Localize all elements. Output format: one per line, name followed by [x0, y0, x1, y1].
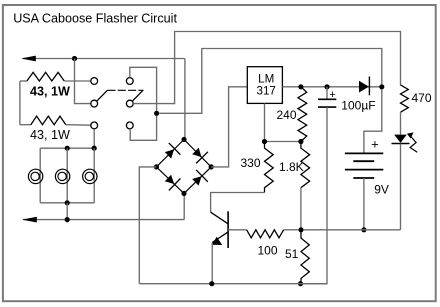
resistor R1 43 1W: [20, 72, 91, 81]
regulator U1 LM317 box: [247, 67, 282, 104]
resistor R2 43 1W: [20, 116, 91, 125]
svg-text:51: 51: [285, 247, 299, 261]
svg-text:43, 1W: 43, 1W: [30, 84, 70, 98]
wire cap positive lead: [326, 87, 328, 100]
node output/240 junction: [298, 84, 303, 89]
bridge diode D4 (left to bottom): [165, 175, 174, 184]
diode D1 cathode bar: [368, 77, 370, 96]
node adj/330 junction: [262, 139, 267, 144]
svg-text:100: 100: [258, 243, 278, 257]
wire LM317 output bus: [282, 86, 381, 88]
wire bridge edge TL: [156, 140, 184, 167]
svg-text:USA Caboose Flasher Circuit: USA Caboose Flasher Circuit: [13, 12, 177, 26]
node 51 bottom junction: [298, 281, 303, 286]
transistor Q1 emitter arrow: [212, 237, 222, 245]
svg-text:317: 317: [257, 84, 276, 97]
switch S1 contact 2A: [126, 78, 133, 85]
wire lamp feed 2: [66, 148, 68, 203]
node lamp bus top junction 1: [65, 146, 70, 151]
switch S1 contact 1B: [91, 100, 98, 107]
wire lamp bus top: [40, 147, 94, 149]
wire junction to switch pole 1: [75, 59, 91, 104]
battery BT1 plate long 1: [345, 152, 383, 154]
wire node to diode node (wire B): [159, 49, 382, 114]
LED D6 flash arrow: [407, 132, 417, 152]
node emitter/ground junction: [209, 281, 214, 286]
resistor 240: [298, 87, 307, 142]
wire switch 2B to 470 (wire A): [133, 32, 400, 104]
svg-text:240: 240: [276, 108, 296, 122]
switch S1 lever 1: [97, 90, 108, 101]
wire lamp bus bottom: [40, 202, 94, 204]
resistor 100: [247, 230, 284, 238]
wire LM317 adj: [264, 103, 266, 141]
svg-text:1.8K: 1.8K: [279, 160, 304, 174]
lamp L3: [83, 169, 97, 183]
node bridge AC bottom: [181, 191, 186, 196]
svg-text:43, 1W: 43, 1W: [30, 128, 70, 142]
node output/cap junction: [324, 84, 329, 89]
wire bridge minus to ground rail: [139, 167, 156, 284]
wire track A (to track, upper): [23, 59, 185, 140]
node 100/51 junction: [298, 227, 303, 232]
node D1 cathode junction: [379, 84, 384, 89]
resistor 51: [301, 230, 309, 284]
switch S1 linkage dashed: [108, 89, 144, 91]
resistor 1.8K: [301, 142, 310, 230]
switch S1 contact 2B: [126, 100, 133, 107]
wire node to switch 2C: [130, 116, 156, 140]
LED D6 triangle: [394, 135, 407, 143]
node 240/1.8K junction: [298, 139, 303, 144]
transistor Q1 emitter: [212, 232, 228, 243]
svg-text:+: +: [329, 89, 335, 101]
node track B / lamp return junction: [65, 217, 70, 222]
svg-text:470: 470: [412, 91, 432, 105]
wire bridge edge BL: [156, 167, 184, 194]
wire R1-R2 left link: [19, 81, 21, 125]
wire bridge edge TR: [184, 140, 211, 167]
node bridge plus right: [209, 164, 214, 169]
transistor Q1 base lead: [228, 229, 247, 231]
bridge diode D2 (left to top): [165, 149, 174, 158]
node bridge minus left: [154, 164, 159, 169]
bridge diode D3 (top to right): [192, 148, 201, 157]
arrowhead track A: [21, 56, 36, 62]
wire cap negative to ground rail: [301, 107, 328, 284]
battery BT1 plate short 2: [353, 177, 374, 179]
LED D6 cathode bar: [392, 143, 410, 145]
node bridge AC top: [181, 137, 186, 142]
wire lamp feed 3: [93, 148, 95, 203]
node lamp bus top junction 2: [92, 146, 97, 151]
wire adj line: [265, 141, 301, 143]
svg-text:330: 330: [240, 156, 260, 170]
svg-text:100µF: 100µF: [341, 99, 375, 113]
wire lamp feed 1: [39, 148, 41, 203]
battery BT1 plate long 2: [345, 169, 383, 171]
wire 330 to Q1 collector: [211, 193, 265, 213]
svg-text:+: +: [371, 136, 379, 151]
battery BT1 plate short 1: [353, 160, 374, 162]
bridge diode D5 (bottom to right): [192, 176, 201, 185]
wire LED to bias rail: [400, 144, 402, 230]
arrowhead track B: [22, 217, 37, 223]
wire bridge edge BR: [184, 167, 211, 194]
node battery minus junction: [361, 227, 366, 232]
lamp L2: [55, 169, 69, 183]
wire ground rail: [139, 283, 327, 285]
wire track B (to track, lower): [23, 193, 184, 219]
wire bias rail right: [304, 229, 401, 231]
wire switch 2A to node: [130, 67, 157, 110]
transistor Q1 base bar: [227, 211, 229, 248]
capacitor C1 plate top: [318, 98, 336, 100]
wire bridge plus to LM317 input: [211, 87, 247, 167]
resistor 470: [401, 85, 409, 135]
node lamp bus bottom junction: [65, 200, 70, 205]
lamp L1: [28, 169, 42, 183]
svg-text:9V: 9V: [374, 182, 389, 196]
resistor 330: [265, 142, 274, 193]
wire Q1 emitter to ground rail: [211, 243, 213, 284]
switch S1 contact 1C: [91, 122, 98, 129]
node switch feed junction: [154, 111, 159, 116]
diode D1 triangle: [359, 81, 369, 93]
switch S1 lever 2: [132, 90, 143, 101]
switch S1 contact 1A: [91, 78, 98, 85]
wire switch 1C to lamp bus: [93, 129, 95, 148]
capacitor C1 plate bottom: [318, 106, 336, 108]
wire D1 node to battery plus: [364, 89, 382, 153]
transistor Q1 collector: [211, 212, 229, 224]
wire bias rail mid: [284, 229, 299, 231]
wire battery minus to bias rail: [363, 178, 365, 230]
wire lamp return to track B: [66, 203, 68, 220]
switch S1 contact 2C: [126, 122, 133, 129]
node track A / switch pole 1 junction: [72, 56, 77, 61]
